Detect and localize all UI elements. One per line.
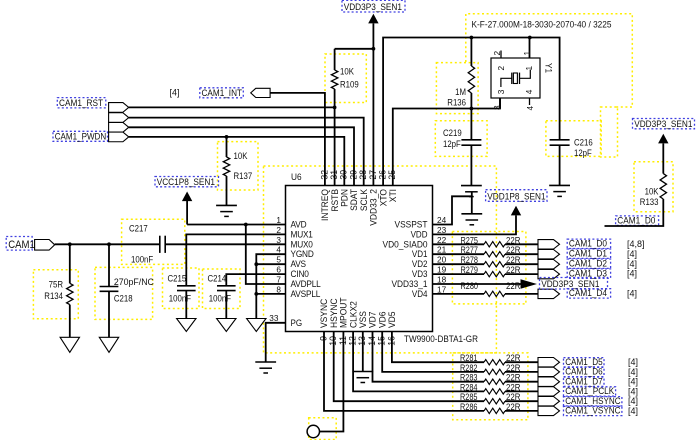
junction C218 tap xyxy=(107,242,111,246)
svg-text:4: 4 xyxy=(276,245,281,255)
ground C218 triangle xyxy=(99,337,118,352)
label R282 xyxy=(460,363,478,373)
wire pin 4 YGND down to ground xyxy=(256,254,285,318)
junction power branch xyxy=(372,47,376,51)
wire pin 6 CIN0 to C214 xyxy=(226,274,285,286)
resistor R275 22R xyxy=(484,242,505,247)
svg-text:5: 5 xyxy=(276,255,281,265)
wire CAM1 to C217 xyxy=(55,243,160,245)
svg-text:VD0_SIAD0: VD0_SIAD0 xyxy=(383,239,428,249)
net label CAM1_PWDN xyxy=(53,131,108,142)
wire R280 to port CAM1_D4 xyxy=(505,293,538,295)
highlight box capacitor C219 xyxy=(435,121,487,157)
wire pin to R282 xyxy=(382,332,484,372)
wire R277 to port CAM1_D1 xyxy=(505,253,538,255)
svg-text:12pF: 12pF xyxy=(443,139,461,149)
junction R136 top xyxy=(470,36,474,40)
wire pin row to R279 xyxy=(433,273,485,275)
resistor R134 75R xyxy=(67,244,73,337)
svg-text:2: 2 xyxy=(496,66,506,71)
highlight box resistor R134 xyxy=(33,270,78,319)
svg-text:INTREQ: INTREQ xyxy=(320,189,330,221)
svg-text:K-F-27.000M-18-3030-2070-40 /: K-F-27.000M-18-3030-2070-40 / 3225 xyxy=(472,20,612,30)
crystal pin number 3 outer xyxy=(492,105,502,110)
port CAM1_VSYNC xyxy=(538,406,560,415)
pin 11 MPOUT of U6 xyxy=(338,297,349,345)
svg-text:R286: R286 xyxy=(460,402,478,412)
svg-text:VD7: VD7 xyxy=(368,312,378,329)
pin 13 VSS of U6 xyxy=(357,311,368,346)
label R137 xyxy=(234,171,253,181)
net label CAM1_D2 xyxy=(567,258,610,269)
svg-text:[4]: [4] xyxy=(628,406,638,416)
svg-text:SDAT: SDAT xyxy=(349,189,359,211)
svg-text:[4,8]: [4,8] xyxy=(627,239,645,249)
svg-text:4: 4 xyxy=(525,106,535,111)
label C219 xyxy=(443,128,462,138)
highlight box resistor R136 xyxy=(436,63,478,114)
svg-text:VD3: VD3 xyxy=(412,269,428,279)
net label CAM1_D4 xyxy=(567,288,610,299)
ground VSSPST xyxy=(461,214,482,225)
svg-text:MUX0: MUX0 xyxy=(291,239,313,249)
wire R109 to pin 31 RSTB xyxy=(334,107,336,185)
wire pin 24 VSSPST to ground xyxy=(433,192,472,225)
resistor R281 22R xyxy=(484,360,505,365)
ground C214 triangle xyxy=(217,319,236,332)
label C219 value 12pF xyxy=(443,139,461,149)
svg-text:[4]: [4] xyxy=(628,396,638,406)
power symbol VDD3P3_SEN1 right arrow xyxy=(521,279,538,288)
wire pin to R281 xyxy=(392,332,484,363)
label C216 value 12pF xyxy=(574,148,592,158)
port CAM1_D7 xyxy=(538,377,560,386)
svg-text:R137: R137 xyxy=(234,171,253,181)
port CAM1 xyxy=(35,240,55,251)
wire pin row to R277 xyxy=(433,253,485,255)
port CAM1_D2 xyxy=(538,260,560,269)
net label CAM1_INT xyxy=(200,88,244,99)
crystal pin number 1 outer xyxy=(522,51,532,56)
capacitor C218 270pF xyxy=(100,244,119,337)
svg-text:2: 2 xyxy=(492,51,502,56)
svg-text:[4]: [4] xyxy=(628,386,638,396)
wire R279 to port CAM1_D3 xyxy=(505,273,538,275)
pin 20 VD2 of U6 xyxy=(412,255,447,270)
label C215 value 100nF xyxy=(169,294,192,304)
svg-text:VDD3P3_SEN1: VDD3P3_SEN1 xyxy=(344,2,402,13)
net label CAM1_RST xyxy=(57,98,106,109)
wire R284 to port CAM1_PCLK xyxy=(505,390,538,392)
net label VDD3P3_SEN1 far right xyxy=(633,119,695,130)
ground C215 triangle xyxy=(177,319,196,332)
svg-text:VDD3P3_SEN1: VDD3P3_SEN1 xyxy=(634,119,692,130)
label R286 xyxy=(460,402,478,412)
svg-text:C215: C215 xyxy=(168,274,187,284)
svg-text:1M: 1M xyxy=(455,87,466,97)
pin 33 PG of U6 xyxy=(269,313,302,328)
port CAM1_HSYNC xyxy=(538,397,560,406)
label C218 xyxy=(114,294,133,304)
junction R137 on CAM1_PWDN xyxy=(225,135,229,139)
svg-text:R278: R278 xyxy=(461,255,479,265)
label R136 value 1M xyxy=(455,87,466,97)
label C214 xyxy=(208,274,227,284)
svg-text:VSYNC: VSYNC xyxy=(319,298,329,328)
label R134 xyxy=(44,291,63,301)
crystal pin number 1 inner xyxy=(524,66,534,71)
svg-text:AVS: AVS xyxy=(291,259,306,269)
pin 25 XTI of U6 xyxy=(387,170,398,202)
crystal Y1 pin 4 stub xyxy=(529,98,531,105)
svg-text:3: 3 xyxy=(496,89,506,94)
label C215 xyxy=(168,274,187,284)
label R109 xyxy=(340,80,359,90)
label R275 value 22R xyxy=(506,235,521,245)
svg-text:CLKX2: CLKX2 xyxy=(348,301,358,328)
label R284 xyxy=(460,382,478,392)
ground R134 triangle xyxy=(60,337,79,352)
junction R134 tap xyxy=(68,242,72,246)
wire pin row to R275 xyxy=(433,243,485,245)
port CAM1_INT xyxy=(251,88,270,97)
crystal pin number 3 inner xyxy=(496,89,506,94)
highlight box crystal circuit xyxy=(466,14,633,107)
svg-text:VDD3P3_SEN1: VDD3P3_SEN1 xyxy=(541,279,599,290)
wire R285 to port CAM1_HSYNC xyxy=(505,400,538,402)
port CAM1_PWDN xyxy=(109,132,129,142)
svg-text:RSTB: RSTB xyxy=(330,189,340,212)
wire pin to R283 xyxy=(373,332,485,382)
pin 29 SDAT of U6 xyxy=(348,170,359,211)
resistor R136 1M xyxy=(468,38,474,109)
resistor R137 10K pull-down xyxy=(223,137,229,206)
port bus wire 3 xyxy=(109,122,129,132)
svg-text:VD5: VD5 xyxy=(387,312,397,329)
svg-text:CAM1_INT: CAM1_INT xyxy=(202,88,243,99)
pin 3 MUX0 of U6 xyxy=(276,235,312,250)
svg-text:R134: R134 xyxy=(44,291,63,301)
wire CAM1_RST to pin 31 xyxy=(129,106,335,108)
pin 18 VDD33_1 of U6 xyxy=(392,275,447,290)
svg-text:C218: C218 xyxy=(114,294,133,304)
wire R275 to port CAM1_D0 xyxy=(505,243,538,245)
label R283 value 22R xyxy=(506,373,521,383)
wire pin row to R278 xyxy=(433,263,485,265)
svg-text:R136: R136 xyxy=(447,98,466,108)
highlight box capacitor C217 xyxy=(122,219,185,264)
pin 14 VD7 of U6 xyxy=(367,312,378,346)
net label CAM1_VSYNC xyxy=(564,406,622,417)
svg-text:R133: R133 xyxy=(640,197,659,207)
port CAM1_D5 xyxy=(538,358,560,367)
svg-text:CIN0: CIN0 xyxy=(291,269,309,279)
wire pin 23 VDD to VDD1P8_SEN1 xyxy=(433,215,517,234)
capacitor C214 100nF xyxy=(217,286,236,319)
svg-text:[4]: [4] xyxy=(627,289,637,299)
crystal pin number 4 outer xyxy=(525,106,535,111)
svg-text:[4]: [4] xyxy=(628,367,638,377)
highlight box resistor R137 xyxy=(218,142,259,190)
pin 24 VSSPST of U6 xyxy=(395,215,447,230)
label R275 xyxy=(461,235,479,245)
net label VCC1P8_SEN1 xyxy=(155,177,219,188)
crystal Y1 body xyxy=(491,58,540,98)
svg-text:R280: R280 xyxy=(461,281,479,291)
pin 10 HSYNC of U6 xyxy=(328,298,339,346)
svg-text:C214: C214 xyxy=(208,274,227,284)
svg-text:TW9900-DBTA1-GR: TW9900-DBTA1-GR xyxy=(404,334,478,345)
ground C216 xyxy=(549,185,570,196)
label C218 value 270pF/NC xyxy=(114,277,154,287)
highlight box capacitor C215 xyxy=(163,268,200,309)
IC U6 part number TW9900-DBTA1-GR xyxy=(404,334,478,345)
pin 12 CLKX2 of U6 xyxy=(348,301,359,346)
label R134 value 75R xyxy=(49,280,64,290)
crystal Y1 symbol xyxy=(501,70,530,88)
svg-text:R283: R283 xyxy=(460,373,478,383)
svg-text:VD2: VD2 xyxy=(412,259,428,269)
svg-text:CAM1_D0: CAM1_D0 xyxy=(617,215,655,226)
power symbol VDD3P3_SEN1 far right xyxy=(658,134,668,144)
junction XTI node xyxy=(470,107,474,111)
svg-text:[4]: [4] xyxy=(628,357,638,367)
wire pin 13 VSS to ground xyxy=(362,332,364,372)
net label CAM1_D1 xyxy=(567,248,610,259)
pin 27 VDD33_2 of U6 xyxy=(368,170,379,226)
no-connect circle MPOUT xyxy=(307,425,319,437)
pin 9 VSYNC of U6 xyxy=(318,298,329,340)
label C216 xyxy=(574,138,593,148)
label R277 xyxy=(461,245,479,255)
junction AVSPLL xyxy=(254,292,258,296)
svg-text:6: 6 xyxy=(276,265,281,275)
bus width label [4] xyxy=(627,259,637,269)
highlight box capacitor C216 xyxy=(546,121,601,157)
wire pin 2 MUX1 to C215 xyxy=(186,234,285,285)
svg-text:MUX1: MUX1 xyxy=(291,229,313,239)
svg-text:1: 1 xyxy=(524,66,534,71)
highlight box resistor block R275-R280 xyxy=(452,232,526,304)
svg-text:VDD33_2: VDD33_2 xyxy=(369,189,379,226)
highlight box resistor block R281-R286 xyxy=(453,353,528,420)
svg-text:R284: R284 xyxy=(460,382,478,392)
resistor R286 22R xyxy=(484,408,505,413)
label R280 value 22R xyxy=(506,281,521,291)
pin 15 VD6 of U6 xyxy=(377,312,388,346)
wire R286 to port CAM1_VSYNC xyxy=(505,410,538,412)
pin 8 AVSPLL of U6 xyxy=(276,284,320,299)
capacitor C215 100nF xyxy=(177,286,196,319)
IC U6 reference designator xyxy=(291,172,302,183)
power symbol VDD1P8_SEN1 xyxy=(511,206,521,216)
resistor R133 10K pull-up xyxy=(660,143,666,199)
port bus wire 2 xyxy=(109,113,129,123)
label R277 value 22R xyxy=(506,245,521,255)
IC U6 TW9900-DBTA1-GR body xyxy=(286,186,433,332)
svg-text:U6: U6 xyxy=(291,172,302,183)
label C214 value 100nF xyxy=(209,294,232,304)
label R285 xyxy=(460,392,478,402)
label R280 xyxy=(461,281,479,291)
svg-text:10K: 10K xyxy=(234,151,248,161)
svg-text:VDD33_1: VDD33_1 xyxy=(392,279,428,289)
ground YGND triangle xyxy=(247,319,266,332)
net label CAM1_D5 xyxy=(564,357,605,368)
label R136 xyxy=(447,98,466,108)
port CAM1_D6 xyxy=(538,367,560,376)
svg-text:75R: 75R xyxy=(49,280,64,290)
svg-text:8: 8 xyxy=(276,284,281,294)
net label CAM1_PCLK xyxy=(564,386,616,397)
svg-text:AVD: AVD xyxy=(291,220,307,230)
resistor R283 22R xyxy=(484,379,505,384)
svg-text:[4]: [4] xyxy=(627,269,637,279)
label R133 xyxy=(640,197,659,207)
wire pin 11 MPOUT to no-connect xyxy=(320,332,344,432)
wire AVDPLL branch xyxy=(246,225,286,285)
svg-text:[4]: [4] xyxy=(170,88,180,98)
crystal Y1 reference designator xyxy=(543,63,553,73)
svg-text:2: 2 xyxy=(276,225,281,235)
bus width label [4] xyxy=(627,249,637,259)
label R283 xyxy=(460,373,478,383)
svg-text:12pF: 12pF xyxy=(574,148,592,158)
svg-text:100nF: 100nF xyxy=(169,294,192,304)
wire pin row to R280 xyxy=(433,293,485,295)
wire CAM1_PWDN to pin 30 PDN xyxy=(129,137,345,186)
label R285 value 22R xyxy=(506,392,521,402)
crystal pin number 4 inner xyxy=(524,89,534,94)
net label VDD3P3_SEN1 row18 xyxy=(540,278,608,291)
pin 30 PDN of U6 xyxy=(339,170,350,207)
wire pin to R286 xyxy=(324,332,484,411)
highlight box capacitor C218 xyxy=(95,267,153,319)
crystal pin number 2 outer xyxy=(492,51,502,56)
svg-text:24: 24 xyxy=(437,215,446,225)
pin 5 AVS of U6 xyxy=(276,255,306,270)
bus width label [4] CAM1_D5 xyxy=(628,357,638,367)
highlight box capacitor C214 xyxy=(203,269,241,309)
crystal Y1 pin 3 stub xyxy=(499,98,501,109)
label R278 value 22R xyxy=(506,255,521,265)
net label CAM1_D0 xyxy=(567,239,610,250)
wire R278 to port CAM1_D2 xyxy=(505,263,538,265)
junction AVS xyxy=(254,262,258,266)
svg-text:23: 23 xyxy=(437,225,446,235)
svg-text:C217: C217 xyxy=(129,224,148,234)
pin 28 SCLK of U6 xyxy=(358,170,369,211)
svg-text:21: 21 xyxy=(437,245,446,255)
label R286 value 22R xyxy=(506,402,521,412)
pin 1 AVD of U6 xyxy=(276,215,307,230)
bus width label [4] CAM1_VSYNC xyxy=(628,406,638,416)
svg-text:33: 33 xyxy=(269,313,278,323)
pin 26 XTO of U6 xyxy=(378,170,389,206)
net label CAM1_D7 xyxy=(564,376,605,387)
wire bus2 to pin 28 SCLK xyxy=(129,118,364,186)
capacitor C219 12pF xyxy=(461,109,481,186)
svg-text:CAM1: CAM1 xyxy=(8,239,35,251)
net label CAM1_D0 pull-up xyxy=(616,215,659,226)
label R109 value 10K xyxy=(340,67,354,77)
svg-text:VDD: VDD xyxy=(411,229,428,239)
svg-text:MPOUT: MPOUT xyxy=(339,297,349,328)
resistor R277 22R xyxy=(484,252,505,257)
wire pin 5 AVS xyxy=(256,263,285,265)
wire R281 to port CAM1_D5 xyxy=(505,361,538,363)
svg-text:VSS: VSS xyxy=(358,311,368,328)
bus width label [4] CAM1_PCLK xyxy=(628,386,638,396)
junction AVDPLL tap xyxy=(244,223,248,227)
svg-text:270pF/NC: 270pF/NC xyxy=(114,277,154,287)
net label CAM1_D3 xyxy=(567,268,610,279)
bus width label [4] CAM1_D6 xyxy=(628,367,638,377)
port CAM1_D0 xyxy=(538,240,560,249)
pin 6 CIN0 of U6 xyxy=(276,265,308,280)
svg-text:VCC1P8_SEN1: VCC1P8_SEN1 xyxy=(157,177,215,188)
highlight box U6 chip area xyxy=(264,166,497,353)
wire R282 to port CAM1_D6 xyxy=(505,371,538,373)
label C217 value 100nF xyxy=(131,255,154,265)
capacitor C217 100nF xyxy=(160,236,165,253)
svg-text:VSSPST: VSSPST xyxy=(395,220,428,230)
port CAM1_D3 xyxy=(538,269,560,278)
resistor R282 22R xyxy=(484,369,505,374)
wire C217 to pin 3 MUX0 xyxy=(165,243,285,245)
wire pin 8 AVSPLL xyxy=(256,293,285,295)
pin 17 VD4 of U6 xyxy=(412,284,447,299)
label R137 value 10K xyxy=(234,151,248,161)
svg-text:R285: R285 xyxy=(460,392,478,402)
svg-text:R282: R282 xyxy=(460,363,478,373)
crystal pin number 2 inner xyxy=(496,66,506,71)
svg-text:XTO: XTO xyxy=(378,189,388,206)
wire pin 18 VDD33_1 to power arrow xyxy=(433,283,521,285)
highlight box resistor R109 xyxy=(325,54,366,103)
svg-text:R109: R109 xyxy=(340,80,359,90)
pin 7 AVDPLL of U6 xyxy=(276,275,320,290)
svg-text:AVSPLL: AVSPLL xyxy=(291,289,321,299)
junction R109 CAM1_RST xyxy=(333,106,337,110)
label R133 value 10K xyxy=(645,187,659,197)
wire VDD3P3_SEN1 to pin 27 VDD33_2 xyxy=(372,49,374,186)
ground R137 xyxy=(216,205,237,216)
highlight box wire right of C216 xyxy=(601,107,618,157)
svg-text:22R: 22R xyxy=(506,281,521,291)
wire pin to R285 xyxy=(334,332,484,402)
wire CAM1_INT to pin 32 INTREQ xyxy=(270,93,325,186)
ground VSS xyxy=(352,372,373,383)
svg-text:1: 1 xyxy=(522,51,532,56)
svg-text:CAM1_RST: CAM1_RST xyxy=(59,98,103,109)
svg-text:PG: PG xyxy=(291,318,303,328)
label R284 value 22R xyxy=(506,382,521,392)
wire bus3 to pin 29 SDAT xyxy=(129,127,354,185)
pin 22 VD0_SIAD0 of U6 xyxy=(383,235,447,250)
wire XTI pin 25 to crystal xyxy=(393,98,500,186)
crystal Y1 pin 1 stub xyxy=(528,36,532,58)
pin 2 MUX1 of U6 xyxy=(276,225,312,240)
pin 32 INTREQ of U6 xyxy=(319,170,330,221)
svg-text:XTI: XTI xyxy=(388,189,398,202)
svg-text:R279: R279 xyxy=(461,265,479,275)
port CAM1_D4 xyxy=(538,289,560,298)
label R279 value 22R xyxy=(506,265,521,275)
wire pin 33 PG to ground xyxy=(266,323,286,362)
svg-text:[4]: [4] xyxy=(627,259,637,269)
resistor R279 22R xyxy=(484,271,505,276)
